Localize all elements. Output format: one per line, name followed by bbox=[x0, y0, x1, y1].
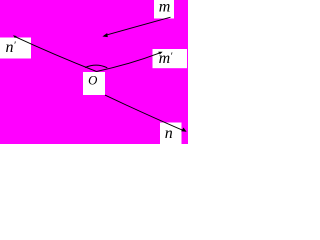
label box m bbox=[154, 0, 174, 19]
arrowhead n end bbox=[181, 128, 186, 132]
arrowhead m' end bbox=[158, 52, 162, 55]
svg-text:m: m bbox=[159, 0, 171, 16]
svg-text:O: O bbox=[88, 73, 97, 87]
arrowhead m end bbox=[102, 33, 107, 37]
label box m' bbox=[153, 49, 188, 68]
label box n bbox=[160, 123, 182, 147]
wire ray n bbox=[105, 95, 184, 131]
angle arc at O bbox=[85, 65, 107, 68]
label box n' bbox=[0, 38, 31, 59]
svg-text:n: n bbox=[165, 125, 173, 142]
wire ray m' bbox=[97, 52, 162, 71]
wire ray n' bbox=[14, 36, 97, 71]
label box O bbox=[83, 72, 105, 95]
wire ray m bbox=[104, 17, 171, 36]
arrowhead n' end bbox=[13, 35, 17, 38]
